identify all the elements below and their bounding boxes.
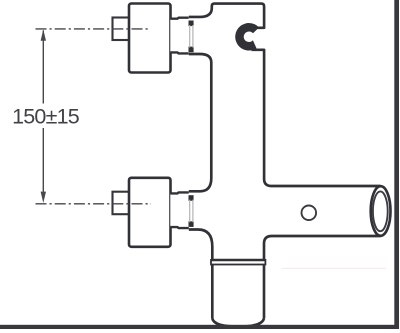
top inlet stub pipe	[113, 18, 131, 41]
top union nut big rect	[129, 4, 171, 73]
dimension line lower shaft	[42, 128, 44, 194]
bottom union thread joint upper shoulder	[189, 195, 194, 201]
dimension arrowhead up	[41, 29, 46, 40]
bottom union collar fill	[170, 192, 189, 228]
bottom pipe collar top line	[211, 259, 265, 261]
screw hole circle on body	[302, 206, 317, 221]
top union thread line right	[192, 25, 194, 48]
bottom union thread line right	[192, 200, 194, 223]
faint scan artifact line	[282, 267, 386, 269]
top union thread joint upper shoulder	[189, 21, 194, 27]
hanger hook C ring	[235, 23, 259, 51]
dimension arrowhead down	[41, 192, 46, 203]
main body fill	[189, 4, 391, 327]
bottom union collar edges	[170, 192, 189, 228]
top union thread joint lower shoulder	[189, 47, 194, 53]
lower inlet centerline	[36, 203, 152, 205]
bottom union thread line left	[189, 200, 191, 223]
upper inlet centerline	[36, 28, 150, 30]
top union thread line left	[189, 25, 191, 48]
svg-text:150±15: 150±15	[12, 105, 80, 129]
drawing frame right border	[394, 0, 399, 329]
bottom pipe end arc	[212, 319, 264, 327]
spout end outer ellipse	[371, 186, 391, 236]
bottom union thread joint lower shoulder	[189, 221, 194, 227]
main body outline stroke	[189, 4, 381, 319]
bottom inlet stub pipe	[113, 192, 131, 215]
dimension line upper shaft	[42, 31, 44, 104]
spout end inner ellipse	[373, 191, 388, 231]
top union collar edges	[170, 18, 189, 54]
top union collar fill	[170, 18, 189, 54]
bottom pipe collar ring	[211, 260, 265, 265]
drawing frame bottom border	[0, 325, 399, 329]
bottom union nut big rect	[129, 178, 171, 247]
